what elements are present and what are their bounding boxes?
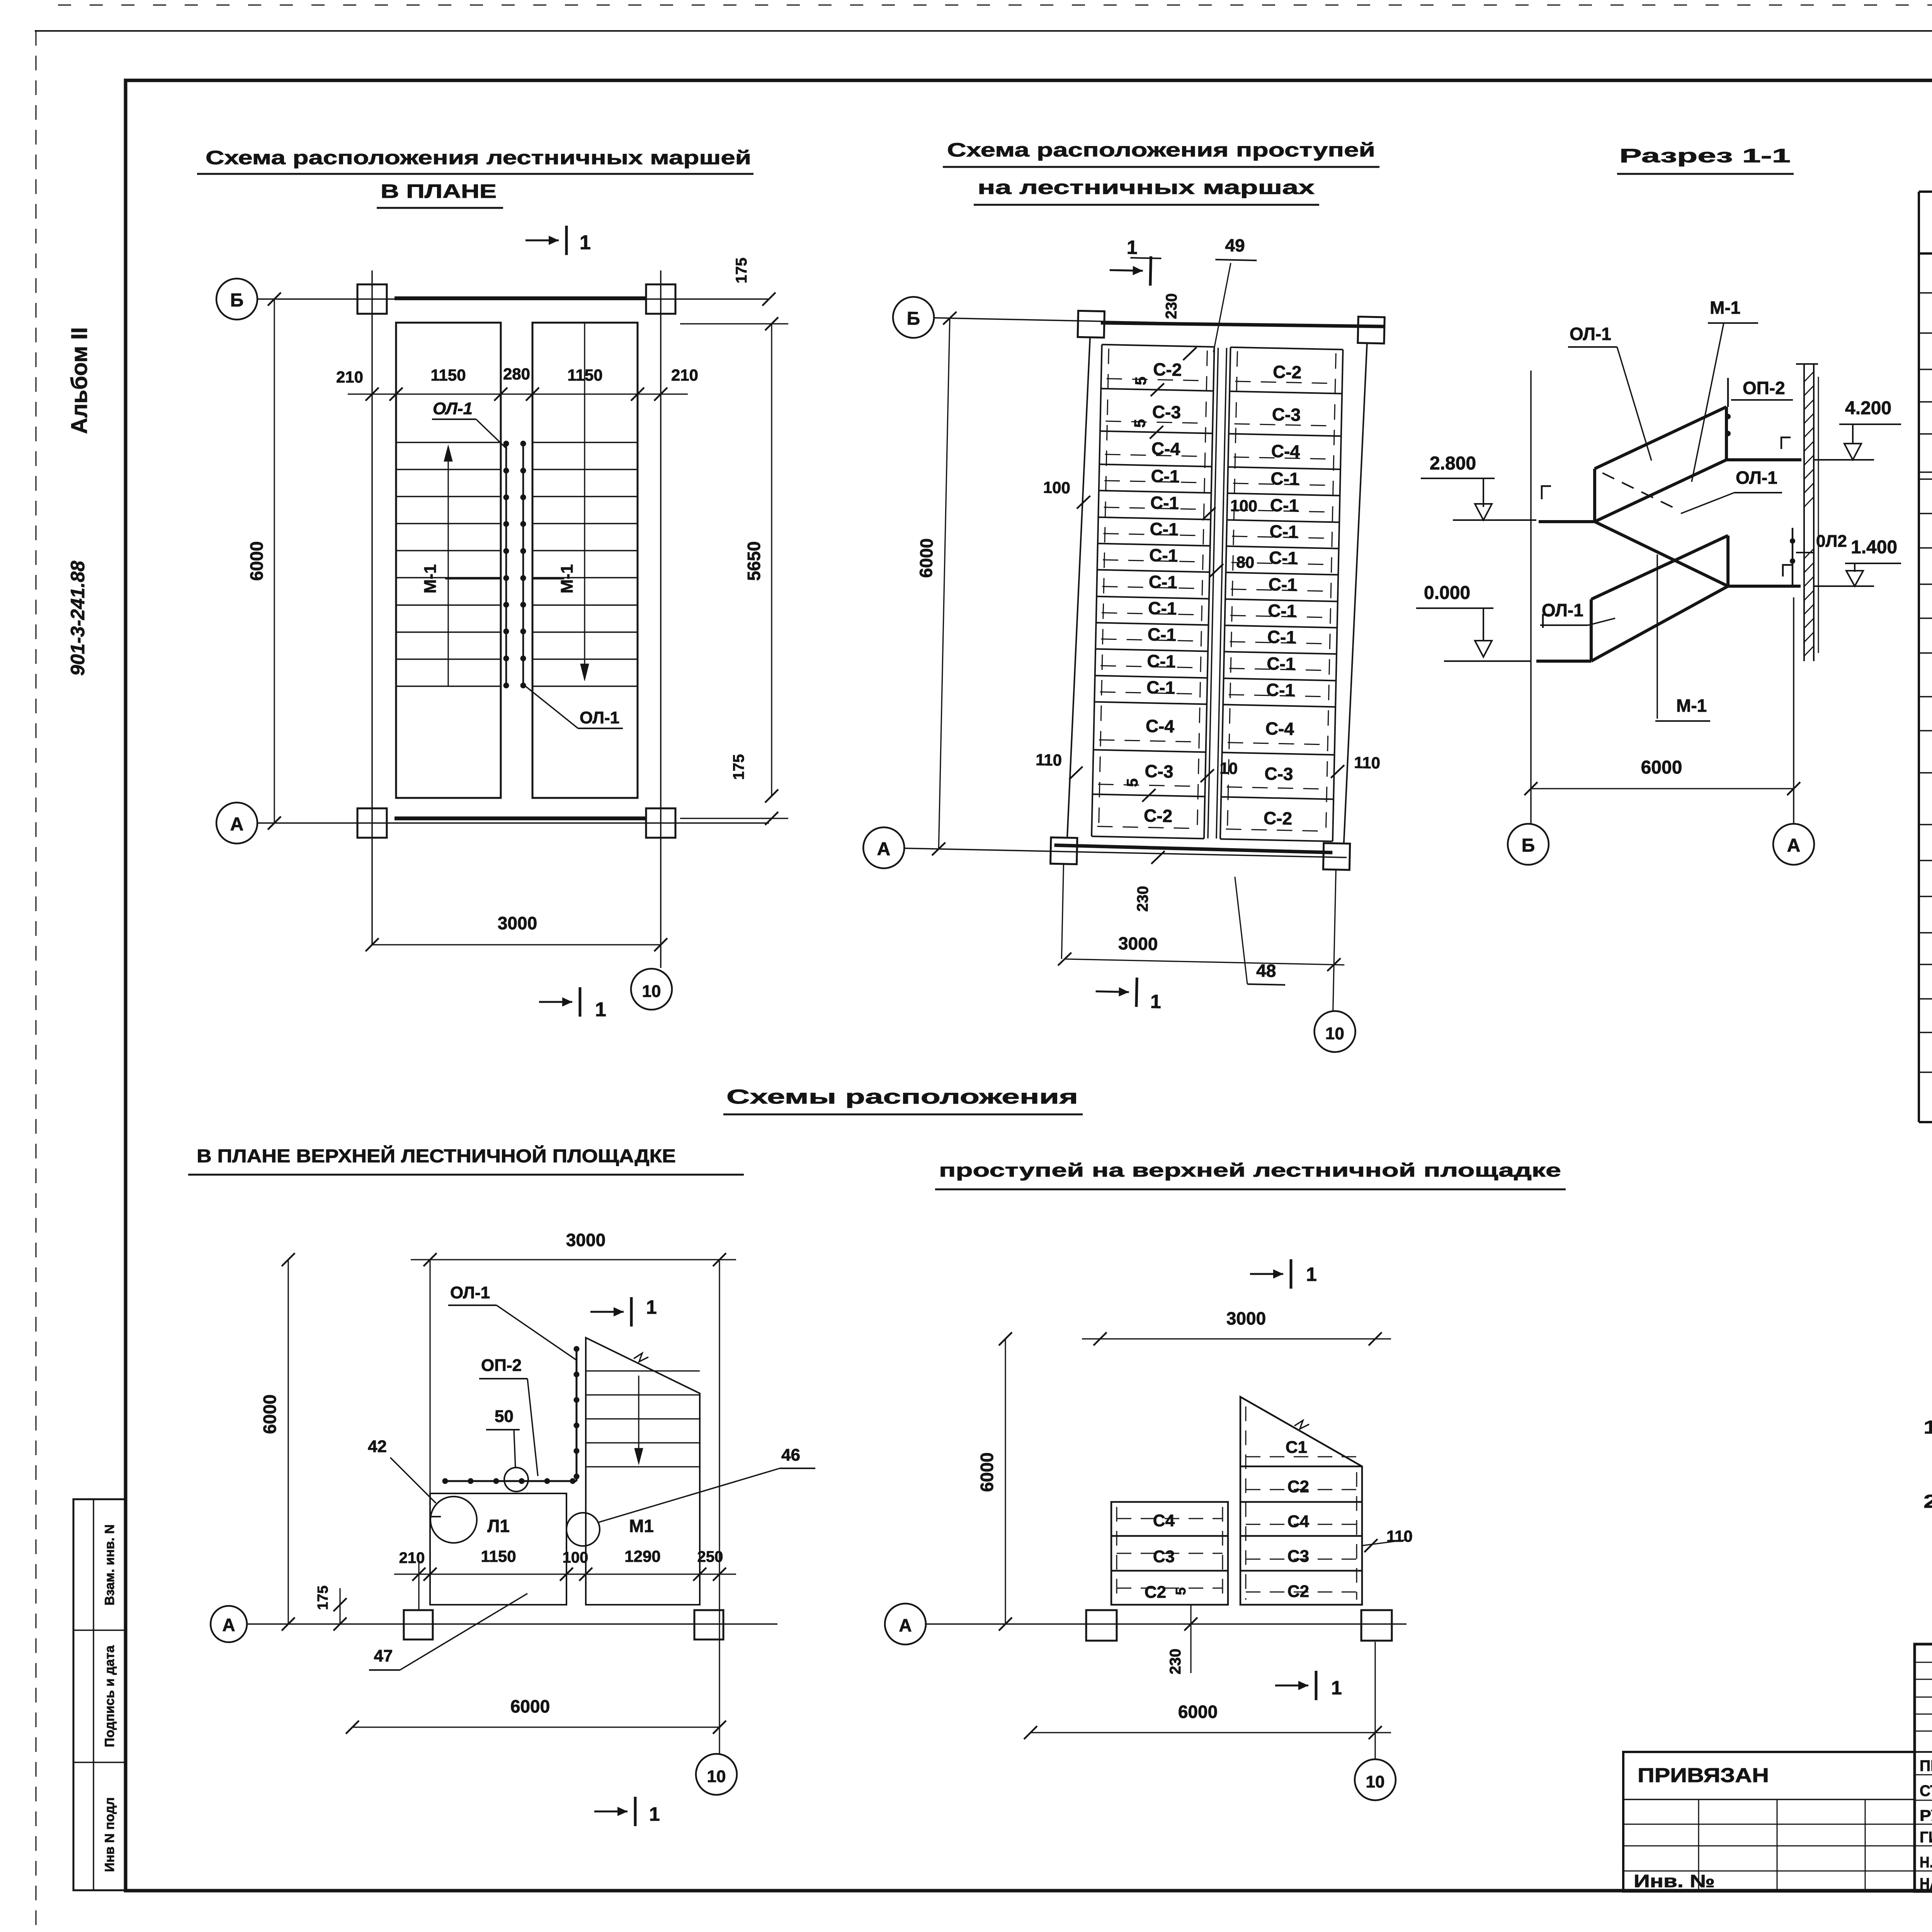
left stamp box (73, 1499, 126, 1890)
svg-text:1: 1 (580, 231, 591, 254)
construction line from 3000 dim to slab corner (429, 1260, 430, 1493)
dimension 5650 right vertical (771, 324, 772, 796)
railing OL-1 vertical dotted diagram 5 (576, 1349, 578, 1481)
svg-text:С-1: С-1 (1268, 574, 1297, 595)
svg-text:Альбом II: Альбом II (67, 327, 92, 434)
svg-text:С-1: С-1 (1148, 598, 1177, 619)
svg-text:4.200: 4.200 (1845, 398, 1891, 418)
svg-text:6000: 6000 (1178, 1702, 1218, 1722)
svg-text:6000: 6000 (247, 541, 267, 581)
svg-text:2. Накладные проступи укл: 2. Накладные проступи укладываются по сл… (1923, 1492, 1932, 1512)
upper flight falling edge to 1.400 (1595, 522, 1728, 586)
svg-text:1: 1 (1126, 236, 1138, 259)
svg-text:110: 110 (1036, 750, 1062, 769)
svg-text:901-3-241.88: 901-3-241.88 (67, 561, 88, 676)
tread slab rows left column (1102, 345, 1214, 347)
svg-text:1.400: 1.400 (1851, 537, 1897, 558)
svg-text:проступей на верхней лест: проступей на верхней лестничной площадке (939, 1160, 1561, 1181)
axis circle B diagram 1 (216, 279, 257, 320)
svg-text:ОЛ-1: ОЛ-1 (1570, 324, 1611, 344)
svg-text:6000: 6000 (260, 1395, 280, 1434)
signature rows (1915, 1774, 1932, 1776)
svg-text:Схемы расположения: Схемы расположения (726, 1086, 1078, 1108)
svg-text:3000: 3000 (566, 1230, 605, 1250)
svg-text:А: А (1787, 835, 1801, 856)
top wall thick line diagram 2 (1101, 321, 1385, 329)
svg-text:Подпись и дата: Подпись и дата (102, 1645, 117, 1747)
svg-text:230: 230 (1167, 1649, 1184, 1675)
svg-text:10: 10 (1366, 1772, 1385, 1791)
column square bottom-left (357, 808, 387, 838)
svg-text:С-1: С-1 (1149, 545, 1178, 566)
svg-text:Б: Б (906, 308, 920, 329)
flight M1 treads diagram 5 (586, 1370, 700, 1371)
railing OP-2 post on top flight (1727, 378, 1729, 407)
axis line A horizontal (257, 822, 769, 824)
svg-text:ГИП: ГИП (1920, 1829, 1932, 1846)
svg-text:С-1: С-1 (1150, 492, 1179, 513)
svg-text:С3: С3 (1153, 1547, 1175, 1566)
privyazan box rows (1623, 1799, 1915, 1800)
svg-text:Схема расположения лестничны: Схема расположения лестничных маршей (206, 147, 751, 168)
svg-text:С-4: С-4 (1265, 718, 1294, 739)
svg-text:0.000: 0.000 (1424, 583, 1470, 603)
svg-text:1: 1 (1306, 1264, 1317, 1285)
svg-text:0Л2: 0Л2 (1816, 532, 1847, 551)
stair enclosure right boundary (1344, 343, 1367, 844)
section mark bottom diagram 5 (594, 1811, 628, 1813)
dimension 3000 diagram 6 (1082, 1338, 1391, 1339)
svg-text:С-1: С-1 (1269, 521, 1298, 542)
axis circle A diagram 1 (216, 803, 257, 844)
svg-text:175: 175 (730, 754, 747, 780)
svg-text:Н. КОНТР.: Н. КОНТР. (1920, 1854, 1932, 1871)
dimension 6000 left diagram 6 (1005, 1339, 1006, 1624)
dimension row 210-1150-100-1290-250 (394, 1573, 736, 1575)
svg-text:ПРОВЕР.: ПРОВЕР. (1920, 1757, 1932, 1774)
svg-text:46: 46 (781, 1446, 800, 1464)
svg-text:ПРИВЯЗАН: ПРИВЯЗАН (1638, 1764, 1769, 1787)
railing OL-1 left dotted line (505, 444, 507, 685)
svg-text:1150: 1150 (481, 1547, 516, 1565)
dimension 6000 left diagram 5 (287, 1260, 289, 1624)
right wall with hatching (1803, 364, 1805, 661)
svg-text:ОЛ-1: ОЛ-1 (1736, 468, 1777, 488)
svg-text:49: 49 (1225, 235, 1245, 255)
dimension 3000 top diagram 5 (411, 1259, 736, 1260)
hidden dashed edges of treads (1107, 379, 1208, 381)
svg-text:210: 210 (399, 1549, 425, 1566)
svg-text:С-1: С-1 (1147, 651, 1176, 672)
railing OL2 post at 1.400 (1792, 528, 1794, 586)
landing line at 4.200 (1726, 458, 1801, 461)
svg-text:С-1: С-1 (1150, 519, 1179, 539)
section mark 1 bottom of diagram 1 (539, 1001, 572, 1003)
axis circle A section (1773, 824, 1814, 865)
axis line A diagram 6 (926, 1623, 1406, 1625)
svg-text:В ПЛАНЕ ВЕРХНЕЙ ЛЕСТНИЧНОЙ: В ПЛАНЕ ВЕРХНЕЙ ЛЕСТНИЧНОЙ ПЛОЩАДКЕ (197, 1145, 676, 1167)
svg-text:М-1: М-1 (421, 564, 440, 594)
spec table vertical lines (1918, 192, 1920, 933)
svg-text:100: 100 (563, 1549, 588, 1566)
slab corner notch at node 42 (430, 1493, 441, 1517)
svg-text:Б: Б (230, 290, 244, 311)
axis circle 10 diagram 6 (1355, 1759, 1396, 1800)
axis vertical line B section (1530, 371, 1532, 824)
svg-text:С-2: С-2 (1144, 805, 1173, 826)
svg-text:1150: 1150 (567, 366, 602, 384)
svg-text:Схема расположения проступей: Схема расположения проступей (947, 139, 1375, 161)
column square bottom-right (646, 808, 675, 838)
svg-text:Инв N подл: Инв N подл (102, 1797, 117, 1872)
svg-text:1: 1 (646, 1296, 657, 1318)
flight M1 walk arrow (638, 1376, 639, 1459)
privyazan extension box (1623, 1752, 1915, 1891)
section mark top diagram 5 (590, 1311, 624, 1313)
railing OP-2 horizontal dotted diagram 5 (445, 1480, 577, 1482)
axis circle A diagram 5 (211, 1606, 247, 1642)
svg-text:С-2: С-2 (1264, 808, 1293, 829)
dimension 3000 bottom (372, 944, 661, 945)
svg-text:ОП-2: ОП-2 (1743, 378, 1785, 398)
upper small rows of signature table (1915, 1662, 1932, 1663)
svg-text:2.800: 2.800 (1430, 453, 1476, 474)
section mark bottom diagram 6 (1275, 1685, 1308, 1687)
svg-text:С1: С1 (1286, 1438, 1307, 1457)
svg-text:1. Монтажные узлы, замаркиро: 1. Монтажные узлы, замаркированные на да… (1923, 1417, 1932, 1438)
svg-text:6000: 6000 (1641, 757, 1682, 778)
svg-text:5650: 5650 (744, 541, 764, 581)
svg-text:175: 175 (315, 1585, 331, 1610)
axis vertical to circle 10 diagram 2 (1061, 864, 1063, 959)
lower flight band (1590, 599, 1593, 661)
svg-text:6000: 6000 (977, 1452, 997, 1492)
svg-text:5: 5 (1132, 376, 1149, 385)
svg-text:А: А (230, 814, 244, 835)
right flight M-1 outline (532, 323, 638, 798)
upper flight band (1593, 469, 1596, 522)
svg-text:10: 10 (1219, 759, 1238, 777)
svg-text:1: 1 (595, 998, 606, 1021)
spec table horizontal lines (1919, 190, 1932, 193)
dimension 6000 section (1531, 788, 1794, 789)
svg-text:1290: 1290 (624, 1547, 660, 1565)
svg-text:С-1: С-1 (1268, 600, 1297, 621)
svg-text:С-2: С-2 (1153, 359, 1182, 380)
title block outer rectangle (1915, 1644, 1932, 1891)
flight M1 break zigzag (634, 1353, 648, 1362)
walk line right flight with down arrow (584, 323, 585, 676)
svg-text:С-4: С-4 (1151, 438, 1180, 459)
svg-text:1150: 1150 (430, 366, 466, 384)
svg-text:С-1: С-1 (1147, 624, 1176, 645)
svg-text:80: 80 (1236, 553, 1255, 571)
svg-text:230: 230 (1134, 886, 1151, 912)
svg-text:М-1: М-1 (1710, 298, 1740, 318)
svg-text:С2: С2 (1145, 1583, 1166, 1602)
scan top edge dashes (58, 5, 1932, 6)
svg-text:на лестничных маршах: на лестничных маршах (978, 177, 1315, 198)
svg-text:3000: 3000 (498, 913, 537, 933)
sheet outer left dashed edge (36, 31, 37, 1932)
svg-text:С2: С2 (1287, 1582, 1309, 1601)
svg-text:110: 110 (1354, 753, 1381, 772)
svg-text:10: 10 (642, 982, 661, 1001)
svg-text:С-1: С-1 (1270, 468, 1299, 489)
svg-text:С-1: С-1 (1146, 677, 1175, 698)
svg-text:С2: С2 (1287, 1477, 1309, 1496)
axis line A diagram 5 (247, 1623, 777, 1625)
axis line B diagram 2 (934, 318, 1385, 327)
svg-text:1: 1 (649, 1803, 660, 1825)
axis vertical line A section (1793, 597, 1794, 824)
svg-text:С3: С3 (1287, 1547, 1309, 1566)
svg-text:СТ. ИНЖ,: СТ. ИНЖ, (1920, 1782, 1932, 1799)
landing line at 0.000 (1536, 660, 1591, 663)
left flight M-1 outline (396, 323, 501, 798)
svg-text:100: 100 (1230, 497, 1257, 515)
tread lines of both flights (396, 442, 501, 443)
svg-text:48: 48 (1256, 960, 1276, 981)
svg-text:С-4: С-4 (1145, 716, 1175, 736)
column squares diagram 2 (1078, 311, 1104, 337)
dimension 3000 bottom diagram 2 (1065, 959, 1344, 965)
sheet outer top border line (35, 30, 1932, 32)
column square top-right (646, 284, 675, 314)
stair enclosure left boundary (1067, 337, 1090, 838)
axis circle 10 diagram 1 (631, 969, 672, 1010)
axis circle B diagram 2 (893, 296, 934, 338)
svg-text:6000: 6000 (510, 1696, 550, 1716)
svg-text:42: 42 (368, 1437, 387, 1456)
bottom wall thick line (395, 816, 646, 820)
svg-text:10: 10 (707, 1767, 726, 1786)
wall hook marks (1542, 486, 1551, 499)
svg-text:С4: С4 (1153, 1511, 1175, 1530)
svg-text:С-1: С-1 (1269, 548, 1298, 568)
svg-text:5: 5 (1173, 1587, 1189, 1595)
svg-text:С-1: С-1 (1148, 571, 1177, 592)
svg-text:5: 5 (1131, 419, 1148, 428)
svg-text:Разрез 1-1: Разрез 1-1 (1619, 145, 1791, 167)
svg-text:50: 50 (495, 1407, 514, 1426)
landing line at 1.400 (1728, 585, 1801, 588)
section mark 1 top of diagram 2 (1110, 270, 1143, 271)
svg-text:М-1: М-1 (1676, 696, 1707, 716)
svg-text:ОП-2: ОП-2 (481, 1356, 522, 1375)
flight M1 outline diagram 5 (586, 1338, 700, 1605)
svg-text:100: 100 (1043, 478, 1070, 497)
svg-text:А: А (877, 839, 891, 860)
svg-text:10: 10 (1325, 1024, 1344, 1043)
svg-text:3000: 3000 (1226, 1308, 1266, 1328)
svg-text:ОЛ-1: ОЛ-1 (450, 1283, 490, 1302)
svg-text:ОЛ-1: ОЛ-1 (1542, 600, 1583, 620)
svg-text:5: 5 (1124, 778, 1141, 787)
dimension line 210-1150-280-1150-210 (348, 393, 688, 395)
svg-text:6000: 6000 (916, 538, 937, 578)
svg-text:1: 1 (1331, 1677, 1342, 1699)
dimension 175 top right (680, 323, 788, 324)
column squares diagram 6 (1086, 1610, 1117, 1641)
axis circle B section (1508, 824, 1549, 865)
svg-text:175: 175 (733, 258, 750, 284)
axis circle 10 diagram 2 (1314, 1011, 1355, 1053)
svg-text:ОЛ-1: ОЛ-1 (433, 399, 473, 418)
top wall thick line (395, 296, 646, 300)
svg-text:Б: Б (1522, 835, 1535, 856)
svg-text:А: А (222, 1615, 235, 1635)
svg-text:С-1: С-1 (1267, 653, 1296, 674)
landing line at 2.800 (1539, 520, 1595, 523)
axis circle A diagram 2 (863, 827, 905, 869)
svg-text:3000: 3000 (1118, 933, 1158, 954)
section mark top diagram 6 (1250, 1273, 1283, 1275)
axis vertical line left (371, 270, 373, 945)
svg-text:С-4: С-4 (1271, 441, 1300, 462)
svg-text:230: 230 (1163, 293, 1180, 320)
section mark bottom diagram 2 (1096, 992, 1129, 992)
svg-text:210: 210 (671, 366, 698, 384)
right group break diagonal (1240, 1397, 1362, 1466)
svg-text:Л1: Л1 (487, 1516, 510, 1536)
axis vertical line right (660, 270, 662, 968)
walk line left flight with up arrow (447, 448, 449, 686)
svg-text:47: 47 (374, 1646, 393, 1665)
axis verticals diagram 5 (418, 1561, 419, 1610)
privyazan box verticals (1698, 1799, 1699, 1891)
svg-text:М1: М1 (629, 1516, 654, 1536)
axis line A diagram 2 (904, 848, 1347, 857)
svg-text:Взам. инв. N: Взам. инв. N (102, 1524, 117, 1605)
svg-text:210: 210 (336, 368, 363, 386)
dimension 6000 left vertical (274, 299, 275, 823)
central gap flight edge lines (1208, 348, 1218, 838)
svg-text:А: А (899, 1615, 912, 1635)
railing OL-1 right dotted line (522, 444, 524, 685)
column square top-left (357, 284, 387, 314)
tread slab rows right column (1231, 347, 1343, 350)
bottom wall thick line diagram 2 (1054, 845, 1332, 852)
svg-text:280: 280 (503, 365, 530, 383)
axis circle 10 diagram 5 (696, 1754, 737, 1795)
svg-text:С-1: С-1 (1266, 680, 1295, 701)
svg-text:С-2: С-2 (1273, 362, 1302, 383)
svg-text:РУК. ГР.: РУК. ГР. (1920, 1807, 1932, 1824)
svg-text:С-1: С-1 (1267, 627, 1296, 648)
svg-text:С-3: С-3 (1264, 764, 1293, 784)
svg-text:С-3: С-3 (1152, 401, 1181, 422)
axis circle A diagram 6 (885, 1604, 926, 1645)
svg-text:С-1: С-1 (1270, 495, 1299, 516)
section mark 1 top of diagram 1 (526, 240, 559, 241)
svg-text:1: 1 (1150, 991, 1162, 1013)
svg-text:С4: С4 (1287, 1512, 1310, 1531)
hidden dashed flight edge (1602, 473, 1679, 510)
left tread group diagram 6 (1111, 1502, 1228, 1605)
svg-text:С-3: С-3 (1145, 761, 1173, 782)
column squares diagram 5 (404, 1610, 433, 1639)
svg-text:ОЛ-1: ОЛ-1 (580, 708, 619, 727)
svg-text:НАЧ.ОТД.: НАЧ.ОТД. (1920, 1875, 1932, 1892)
svg-text:С-1: С-1 (1151, 466, 1180, 486)
svg-text:Инв. №: Инв. № (1634, 1871, 1715, 1891)
dimension 6000 bottom diagram 5 (352, 1726, 719, 1728)
dimension 6000 bottom diagram 6 (1031, 1732, 1391, 1733)
dimension 6000 left diagram 2 (939, 318, 950, 849)
right tread group diagram 6 (1240, 1397, 1362, 1605)
svg-text:В ПЛАНЕ: В ПЛАНЕ (381, 180, 497, 202)
landing slab L1 outline (430, 1493, 566, 1605)
axis line B horizontal (257, 298, 769, 300)
svg-text:С-3: С-3 (1272, 404, 1301, 425)
